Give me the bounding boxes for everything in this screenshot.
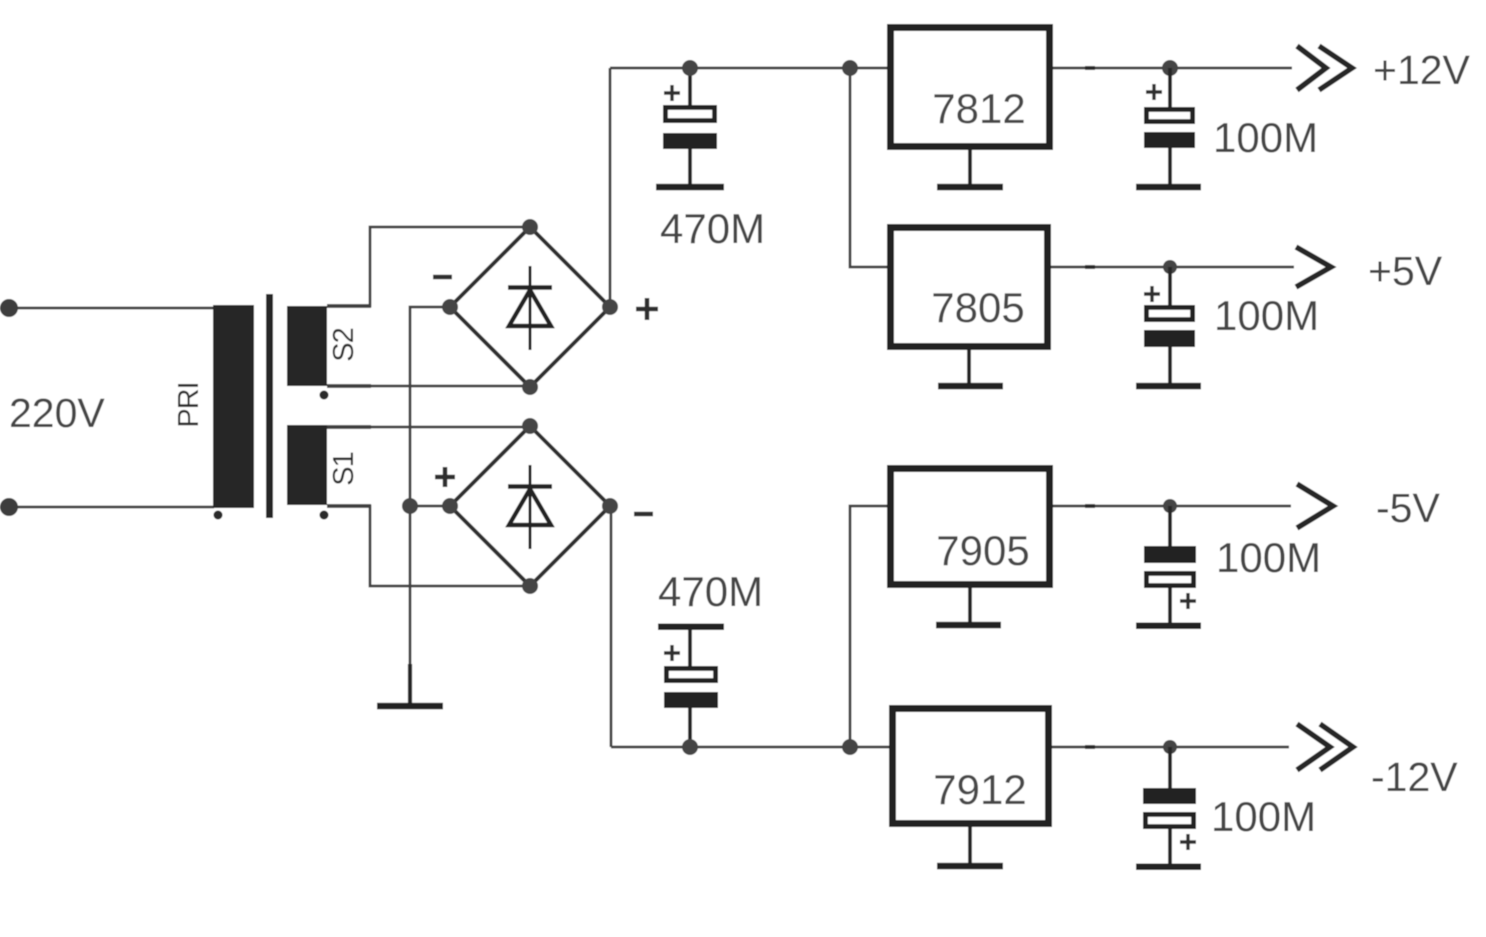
capacitor C6 plus mark <box>1180 834 1196 850</box>
capacitor C2 top plate <box>1146 109 1192 121</box>
node junction ground bus <box>402 498 418 514</box>
node B1 top <box>522 219 538 235</box>
svg-text:S2: S2 <box>328 328 360 361</box>
transformer polarity dot S1 <box>320 511 329 520</box>
ground under 7812 <box>937 184 1003 191</box>
svg-text:7805: 7805 <box>931 284 1024 331</box>
wire joint tick -5V <box>1085 504 1095 508</box>
svg-text:-12V: -12V <box>1371 754 1458 800</box>
wire S1 bottom to bridge B2 AC bottom <box>327 506 530 586</box>
wire -12V rail <box>611 746 1289 749</box>
arrow -12V output <box>1297 724 1353 770</box>
capacitor C1 470M positive lead <box>688 68 692 187</box>
node B2 left <box>442 498 458 514</box>
ground under C5 <box>1136 623 1201 630</box>
wire S1 top to bridge B2 AC top <box>327 426 530 429</box>
wire bridge B1 plus up to +12V rail <box>609 68 612 307</box>
capacitor C5 100M lead <box>1168 506 1172 623</box>
label S2 <box>328 328 360 361</box>
bridge rectifier B1 body <box>450 227 610 387</box>
wire 7805 output to +5V arrow <box>1051 266 1294 269</box>
wire bridge B2 minus down to -12V rail <box>610 506 613 747</box>
wire bridge B1 minus to ground bus <box>410 307 450 703</box>
capacitor C4 top plate <box>666 668 715 680</box>
node B1 bottom <box>522 379 538 395</box>
capacitor C4 plus mark <box>664 645 680 661</box>
capacitor C3 bottom plate <box>1144 330 1195 347</box>
wire +12V rail <box>610 67 1292 70</box>
wire joint tick +12V <box>1085 66 1095 70</box>
svg-text:-5V: -5V <box>1376 485 1440 531</box>
wire AC line top from terminal to transformer <box>9 307 214 310</box>
regulator U4 7912 <box>893 709 1049 824</box>
capacitor C3 100M lead <box>1168 267 1172 386</box>
ground under C2 <box>1136 184 1201 191</box>
regulator U2 7805 <box>891 228 1048 347</box>
ground under 7805 <box>938 383 1003 390</box>
node 7812 input tap <box>842 60 858 76</box>
capacitor C2 plus mark <box>1146 84 1162 100</box>
regulator U3 7905 <box>891 469 1050 585</box>
wire 7905 feed up from -12V rail <box>850 506 887 747</box>
label PRI <box>173 382 205 427</box>
node -5V output tap <box>1163 499 1177 513</box>
capacitor C6 top plate <box>1143 788 1196 804</box>
ground under C1 <box>656 184 724 191</box>
wire S2 top to bridge B1 AC top <box>327 227 530 306</box>
bridge B2 diode symbol <box>508 465 552 549</box>
node AC terminal top <box>0 299 18 317</box>
regulator U1 7812 <box>891 28 1050 147</box>
svg-text:+12V: +12V <box>1373 47 1471 93</box>
arrow -5V output <box>1297 484 1333 528</box>
node -12V output tap <box>1163 740 1177 754</box>
ground under 7905 <box>936 622 1001 629</box>
svg-text:100M: 100M <box>1211 793 1316 840</box>
capacitor C5 bottom plate <box>1146 573 1193 585</box>
transformer polarity dot primary <box>214 511 223 520</box>
wire 7812 ground stub <box>968 150 972 184</box>
svg-text:+5V: +5V <box>1368 248 1443 294</box>
node 7912 input tap <box>842 739 858 755</box>
ground under C6 <box>1136 864 1201 871</box>
label B1 minus <box>433 275 452 280</box>
wire joint tick -12V <box>1085 745 1095 749</box>
svg-text:100M: 100M <box>1216 534 1321 581</box>
label B2 plus <box>435 467 455 487</box>
wire +5V feed down from +12V rail <box>850 68 887 267</box>
label S1 <box>328 452 360 485</box>
wire bridge B2 plus to ground bus <box>410 505 450 508</box>
capacitor C6 bottom plate <box>1145 814 1193 826</box>
capacitor C4 bottom plate <box>664 692 718 708</box>
wire S2 bottom to bridge B1 AC bottom <box>327 385 530 388</box>
svg-text:PRI: PRI <box>173 382 205 427</box>
label B2 minus <box>634 512 653 517</box>
capacitor C3 top plate <box>1146 307 1192 319</box>
node B2 bottom <box>522 578 538 594</box>
svg-text:100M: 100M <box>1213 114 1318 161</box>
capacitor C1 plus mark <box>664 85 680 101</box>
svg-text:7905: 7905 <box>936 527 1029 574</box>
bridge rectifier B2 body <box>450 426 610 586</box>
svg-text:7912: 7912 <box>933 766 1026 813</box>
svg-text:470M: 470M <box>660 205 765 252</box>
wire S2 terminal nubs <box>327 306 371 506</box>
transformer T1 primary winding <box>213 305 254 508</box>
ground under 7912 <box>937 863 1003 870</box>
node B1 right <box>602 299 618 315</box>
capacitor C3 plus mark <box>1144 286 1160 302</box>
wire joint tick +5V <box>1085 265 1095 269</box>
wire 7905 ground stub <box>968 588 972 622</box>
transformer T1 secondary winding S2 <box>287 306 327 386</box>
node +12V output tap <box>1162 60 1178 76</box>
capacitor C2 bottom plate <box>1144 132 1195 148</box>
svg-text:7812: 7812 <box>932 85 1025 132</box>
svg-text:S1: S1 <box>328 452 360 485</box>
capacitor C2 100M lead <box>1168 68 1172 187</box>
wire 7912 ground stub <box>968 827 972 863</box>
transformer T1 secondary winding S1 <box>287 425 327 505</box>
capacitor C5 top plate <box>1144 546 1196 563</box>
node B2 right <box>602 498 618 514</box>
capacitor C1 bottom plate <box>663 133 717 149</box>
wire 7805 ground stub <box>967 350 971 383</box>
arrow +12V output <box>1297 46 1352 90</box>
bridge B1 diode symbol <box>508 266 552 350</box>
capacitor C1 top plate <box>665 107 714 120</box>
wire AC line bottom from terminal to transformer <box>9 506 214 509</box>
node B2 top <box>522 418 538 434</box>
svg-text:470M: 470M <box>658 568 763 615</box>
node +5V output tap <box>1163 260 1177 274</box>
ground under C3 <box>1136 383 1201 390</box>
node C1 tap <box>682 60 698 76</box>
svg-text:220V: 220V <box>9 390 105 436</box>
transformer T1 core <box>266 294 273 518</box>
ground main <box>377 703 443 710</box>
capacitor C5 plus mark <box>1180 593 1196 609</box>
wire 7905 output to -5V arrow <box>1053 505 1291 508</box>
label B1 plus <box>636 298 658 320</box>
node AC terminal bottom <box>0 498 18 516</box>
transformer polarity dot S2 <box>320 391 329 400</box>
capacitor C4 leads <box>688 630 692 747</box>
wire ground stub <box>408 664 412 703</box>
node B1 left <box>442 299 458 315</box>
node C4 tap <box>682 739 698 755</box>
svg-text:100M: 100M <box>1214 292 1319 339</box>
capacitor C4 470M negative rail ground bar <box>658 624 724 631</box>
capacitor C6 100M lead <box>1168 747 1172 864</box>
arrow +5V output <box>1296 247 1331 287</box>
